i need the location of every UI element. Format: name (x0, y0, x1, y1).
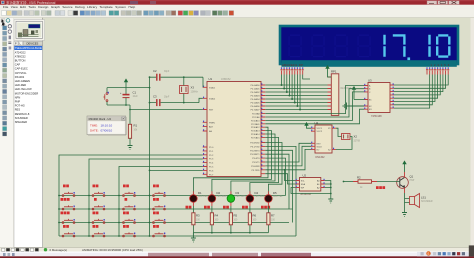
svg-text:RST: RST (209, 110, 214, 112)
svg-text:LED-GRN: LED-GRN (236, 196, 247, 198)
wire: LS1 to ground (404, 203, 406, 213)
wire: R1 to ground (129, 138, 131, 145)
taskbar (0, 252, 474, 258)
svg-text:NPN: NPN (15, 95, 21, 99)
svg-text:P2.5/A13: P2.5/A13 (251, 130, 260, 133)
svg-text:ANIMATING: 00:00:19.950000 (CP: ANIMATING: 00:00:19.950000 (CPU load 25%… (82, 248, 143, 252)
lit digits 17.10 (385, 35, 450, 57)
svg-text:I/O: I/O (317, 149, 320, 151)
resistor R4 (210, 213, 213, 225)
svg-text:P0.0/AD0: P0.0/AD0 (251, 84, 261, 87)
power arrow at U4 (304, 122, 311, 128)
button RESET (103, 93, 108, 102)
svg-text:DS1302: DS1302 (15, 75, 25, 79)
svg-text:SPEAKER: SPEAKER (15, 120, 27, 124)
crystal X2 (336, 128, 361, 149)
button S12 row3 col4 (153, 222, 155, 224)
svg-text:D5: D5 (273, 191, 277, 195)
svg-text:S: S (427, 252, 429, 256)
status bar (0, 248, 474, 252)
crystal X3 (180, 76, 199, 103)
button S2 row1 col2 (92, 195, 94, 197)
power arrow near U3 (352, 86, 364, 100)
svg-text:P0.3/AD3: P0.3/AD3 (251, 95, 261, 98)
EEPROM U2 AT24C02 (296, 174, 325, 197)
svg-text:C3: C3 (153, 95, 157, 99)
LED D4 (246, 195, 254, 203)
wire: XTAL2 net (150, 98, 203, 102)
resistor R7 (267, 213, 270, 225)
wire: XTAL1 net (150, 77, 204, 87)
power arrow at RP1 (325, 65, 331, 77)
svg-text:WP: WP (301, 188, 305, 190)
wire: P3 staircase to keypad rows (265, 146, 296, 236)
wire: P2/P3 staircase to LEDs (193, 127, 282, 194)
svg-text:LED-RED: LED-RED (15, 83, 27, 87)
LEDs D1-D5 (186, 191, 284, 208)
svg-text:ALE: ALE (209, 126, 214, 129)
MCU U1 AT89C52 (203, 77, 266, 176)
svg-text:R1: R1 (134, 124, 138, 128)
svg-text:123456: 123456 (431, 63, 452, 67)
left panel (14, 18, 43, 248)
svg-text:PSEN: PSEN (209, 122, 215, 124)
svg-text:P3.3/INT1: P3.3/INT1 (250, 154, 260, 156)
button S15 row4 col3 (123, 235, 125, 237)
decoder U3 74HC138 (364, 78, 394, 117)
wire: P2 bus to U3 A B C E3 (265, 86, 364, 124)
display DS1 6-digit 7seg blue (280, 26, 458, 75)
svg-text:LS1: LS1 (421, 196, 426, 200)
svg-text:PNP: PNP (15, 100, 21, 104)
wire: LED ground bus (193, 232, 268, 234)
svg-text:P3.6/WR: P3.6/WR (251, 166, 260, 168)
button S16 row4 col4 (153, 235, 155, 237)
svg-text:R6: R6 (253, 214, 257, 218)
digit 7 (393, 35, 406, 56)
wire: U2 SCL SDA from MCU (265, 170, 295, 184)
wire: segment bus P0 to display and RP1 (265, 75, 327, 110)
button S3 row1 col3 (123, 195, 125, 197)
button S6 row2 col2 (92, 208, 94, 210)
svg-text:RES: RES (15, 108, 21, 112)
svg-text:U1: U1 (209, 77, 213, 81)
wire: keypad row lines (59, 196, 296, 237)
button S13 row4 col1 (62, 235, 64, 237)
ground below U2 (328, 199, 333, 203)
svg-text:C2: C2 (153, 69, 157, 73)
svg-text:P3.7/RD: P3.7/RD (252, 170, 260, 172)
button S5 row2 col1 (62, 208, 64, 210)
svg-text:MOTOR-ENCODER: MOTOR-ENCODER (15, 91, 39, 95)
svg-text:C1: C1 (133, 91, 137, 95)
svg-text:X3: X3 (191, 86, 195, 90)
resistor R6 (248, 213, 251, 225)
svg-text:R3: R3 (196, 214, 200, 218)
svg-text:10uF: 10uF (133, 96, 139, 98)
svg-text:7SEG-MPX6-CA-BLUE: 7SEG-MPX6-CA-BLUE (15, 46, 42, 50)
svg-text:0 Message(s): 0 Message(s) (50, 248, 68, 252)
wire: crystal left rail (149, 77, 151, 170)
wire: digit select Y0-Y5 to display (394, 75, 448, 109)
device list (14, 46, 43, 248)
ground sideways at U3 E2 (343, 103, 364, 110)
svg-text:VCC2: VCC2 (317, 131, 323, 133)
svg-text:LED-YELLOW: LED-YELLOW (15, 87, 32, 91)
display left pins (282, 71, 303, 75)
resistor R3 (192, 213, 195, 225)
svg-text:LED-GREEN: LED-GREEN (15, 79, 30, 83)
svg-text:BUTTON: BUTTON (15, 59, 26, 63)
svg-text:VCC1: VCC1 (317, 128, 323, 130)
svg-text:RST: RST (317, 143, 322, 145)
resistor R1 (128, 124, 131, 138)
selector buttons row (14, 41, 18, 45)
ground top of keypad (R1 net) (124, 145, 126, 147)
svg-text:07/06/10: 07/06/10 (101, 129, 113, 133)
svg-text:12MHz: 12MHz (191, 91, 199, 93)
LED D2 (208, 195, 216, 203)
svg-text:DEVICES: DEVICES (27, 41, 39, 45)
second row icons (1, 18, 5, 22)
wire: reset node (107, 98, 203, 125)
resistors R3-R7 (191, 206, 276, 242)
svg-text:P0.2/AD2: P0.2/AD2 (251, 91, 261, 94)
decimal point (407, 57, 410, 60)
button S8 row2 col4 (153, 208, 155, 210)
ground below R1 (128, 146, 133, 150)
svg-text:TIME:: TIME: (90, 124, 98, 128)
svg-text:LED-RED: LED-RED (198, 196, 208, 198)
button S4 row1 col4 (153, 195, 155, 197)
left tool strip (0, 18, 14, 248)
svg-text:CAP-ELEC: CAP-ELEC (15, 67, 28, 71)
digit 1 (428, 35, 430, 57)
reset circuit: power arrow (124, 78, 128, 87)
preview window (14, 20, 45, 41)
LED D3 (227, 195, 235, 203)
button S10 row3 col2 (92, 222, 94, 224)
resistor R5 (229, 213, 232, 225)
svg-text:R5: R5 (234, 214, 238, 218)
svg-text:AT89C52: AT89C52 (15, 54, 26, 58)
svg-text:30pF: 30pF (164, 71, 170, 73)
svg-text:P0.5/AD5: P0.5/AD5 (251, 102, 261, 105)
svg-text:ABCDEFG DP: ABCDEFG DP (282, 63, 303, 67)
svg-text:File View Edit Tools Design Gr: File View Edit Tools Design Graph Source… (3, 5, 135, 9)
svg-text:P3.2/INT0: P3.2/INT0 (250, 150, 260, 152)
svg-text:AT24C02: AT24C02 (15, 50, 26, 54)
svg-text:P3.0/RXD: P3.0/RXD (250, 143, 260, 145)
wire: keypad column lines to P1 (59, 155, 203, 236)
wire: U2 right pins to ground (291, 181, 331, 200)
svg-text:74HC138: 74HC138 (371, 115, 382, 118)
svg-text:P3.1/TXD: P3.1/TXD (250, 146, 260, 148)
svg-text:U4: U4 (315, 121, 319, 125)
junction dots on segment bus (281, 84, 302, 111)
ground LED bus (191, 233, 196, 242)
svg-text:XTAL2: XTAL2 (209, 97, 216, 100)
svg-text:DS1302 Clock - U4: DS1302 Clock - U4 (89, 117, 112, 121)
svg-text:LED-YEL: LED-YEL (273, 196, 283, 198)
capacitor C3 (153, 95, 170, 107)
svg-text:P2.6/A14: P2.6/A14 (251, 133, 260, 136)
svg-text:SDA: SDA (301, 183, 306, 186)
power arrow at Q1 emitter (402, 160, 406, 172)
svg-text:P2.3/A11: P2.3/A11 (251, 123, 260, 126)
svg-text:DATE:: DATE: (90, 129, 99, 133)
svg-text:P2.1/A9: P2.1/A9 (252, 116, 260, 119)
svg-text:SOUNDER: SOUNDER (15, 116, 28, 120)
svg-text:D4: D4 (255, 191, 259, 195)
svg-text:SOUNDER: SOUNDER (421, 201, 433, 203)
svg-text:SCLK: SCLK (317, 146, 323, 148)
transistor Q1 PNP (377, 172, 415, 193)
button S11 row3 col3 (123, 222, 125, 224)
button S14 row4 col2 (92, 235, 94, 237)
svg-text:30pF: 30pF (164, 97, 170, 99)
svg-text:RESPACK-8: RESPACK-8 (15, 112, 30, 116)
svg-text:P: P (15, 41, 17, 45)
svg-text:D1: D1 (198, 191, 202, 195)
svg-text:P0.6/AD6: P0.6/AD6 (251, 105, 261, 108)
svg-text:CAP: CAP (15, 63, 21, 67)
svg-text:PNP: PNP (410, 180, 415, 182)
svg-text:R2: R2 (357, 176, 361, 180)
resistor R2 (353, 176, 385, 189)
digit 0 (437, 35, 449, 56)
svg-text:X2: X2 (354, 135, 358, 139)
svg-text:P0.7/AD7: P0.7/AD7 (251, 109, 261, 112)
svg-text:LED-RED: LED-RED (255, 196, 265, 198)
resistor pack RP1 (328, 70, 355, 116)
svg-text:32768: 32768 (354, 140, 361, 142)
button S9 row3 col1 (62, 222, 64, 224)
svg-text:R4: R4 (215, 214, 219, 218)
button S1 row1 col1 (62, 195, 64, 197)
svg-text:P0.4/AD4: P0.4/AD4 (251, 98, 261, 101)
svg-text:R7: R7 (271, 214, 275, 218)
svg-text:CRYSTAL: CRYSTAL (15, 71, 27, 75)
wire: P3 to DS1302 RST SCLK IO (265, 143, 311, 170)
menu bar (0, 5, 474, 9)
LED D5 (265, 195, 273, 203)
ghost off segments (289, 35, 370, 56)
window buttons (427, 1, 437, 5)
toolbar (0, 9, 474, 18)
capacitor C1 (120, 91, 138, 99)
svg-text:LED-RED: LED-RED (217, 196, 227, 198)
ground below LS1 (402, 213, 407, 217)
display right pins (427, 71, 448, 75)
digit 1 (383, 35, 385, 57)
svg-text:U2: U2 (303, 174, 307, 178)
svg-text:RP1: RP1 (331, 70, 337, 74)
svg-text:D3: D3 (236, 191, 240, 195)
svg-text:P3.4/T0: P3.4/T0 (252, 158, 260, 160)
svg-text:XTAL1: XTAL1 (209, 86, 216, 89)
svg-text:18:10:10: 18:10:10 (101, 124, 113, 128)
junction dots keypad (58, 170, 150, 237)
svg-text:Q1: Q1 (410, 175, 414, 179)
svg-text:P2.0/A8: P2.0/A8 (252, 113, 260, 116)
svg-text:P2.2/A10: P2.2/A10 (251, 119, 260, 122)
wire: reset top rail (107, 88, 150, 95)
svg-text:U3: U3 (368, 78, 372, 82)
wire: buzzer net to R2 (343, 181, 353, 183)
RTC U4 DS1302 (311, 121, 336, 159)
title bar (0, 0, 474, 5)
svg-text:DS1302: DS1302 (316, 156, 326, 159)
keypad buttons 4x4 (61, 185, 166, 237)
button S7 row2 col3 (123, 208, 125, 210)
svg-text:P0.1/AD1: P0.1/AD1 (251, 88, 261, 91)
svg-text:P2.4/A12: P2.4/A12 (251, 126, 260, 129)
capacitor C2 (153, 69, 170, 81)
LED D1 (190, 195, 198, 203)
svg-text:POT-HG: POT-HG (15, 104, 25, 108)
popup DS1302 clock window (87, 116, 127, 136)
sounder LS1 (405, 193, 433, 208)
svg-text:AT89C52: AT89C52 (221, 78, 231, 81)
svg-text:P2.7/A15: P2.7/A15 (251, 136, 260, 139)
svg-text:P3.5/T1: P3.5/T1 (252, 162, 260, 164)
svg-text:D2: D2 (217, 191, 221, 195)
